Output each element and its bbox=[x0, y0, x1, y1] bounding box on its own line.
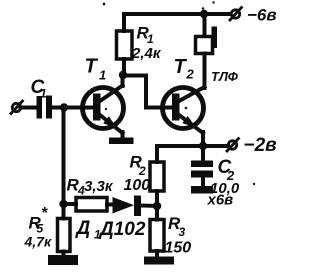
wire top rail bbox=[124, 12, 229, 16]
wire T1 collector up bbox=[121, 75, 125, 86]
scan speck bbox=[202, 7, 205, 10]
label R3 bbox=[165, 214, 192, 257]
svg-text:x6в: x6в bbox=[207, 192, 234, 209]
wire T2 emitter down bbox=[201, 132, 205, 146]
resistor R1 bbox=[117, 14, 133, 75]
wire T2 base bbox=[146, 106, 173, 110]
transistor T1 bbox=[83, 86, 124, 134]
label R2 bbox=[124, 153, 151, 195]
node C junction dot bbox=[200, 10, 208, 18]
wire node B to T2 base bbox=[123, 76, 146, 108]
label T1 bbox=[85, 56, 107, 83]
ground under R3 bbox=[144, 257, 174, 265]
headphone TLF bbox=[196, 14, 218, 88]
resistor R4 bbox=[64, 198, 108, 212]
label T2 bbox=[174, 56, 195, 82]
svg-text:2,4к: 2,4к bbox=[131, 45, 162, 62]
wire R2 top rail to -2v bbox=[157, 146, 228, 162]
svg-text:4,7к: 4,7к bbox=[24, 234, 52, 250]
svg-text:1: 1 bbox=[99, 68, 106, 83]
svg-text:2: 2 bbox=[138, 164, 146, 178]
transistor T2 bbox=[163, 87, 205, 133]
scan speck bbox=[253, 183, 255, 185]
svg-text:T: T bbox=[174, 56, 188, 78]
label R1 bbox=[131, 24, 162, 63]
svg-text:−2в: −2в bbox=[244, 135, 277, 156]
terminal -2v bbox=[227, 139, 239, 152]
svg-text:2: 2 bbox=[186, 67, 195, 82]
node E junction dot bbox=[153, 202, 162, 211]
resistor R5 bbox=[58, 204, 71, 256]
node F junction dot bbox=[59, 200, 67, 208]
input terminal bbox=[11, 101, 23, 114]
scan speck bbox=[212, 1, 214, 3]
wire input to C1 bbox=[21, 106, 37, 110]
svg-text:ТЛФ: ТЛФ bbox=[211, 69, 239, 84]
svg-text:Д102: Д102 bbox=[98, 219, 146, 240]
diode D1 bbox=[107, 196, 157, 217]
resistor R3 bbox=[150, 206, 164, 257]
resistor R2 bbox=[150, 162, 164, 206]
capacitor C2 bbox=[191, 146, 213, 186]
ground under R5 bbox=[48, 255, 78, 265]
svg-text:1: 1 bbox=[40, 87, 47, 101]
svg-text:3: 3 bbox=[179, 225, 186, 239]
wire T1 emitter to ground bbox=[121, 132, 125, 138]
node B junction dot bbox=[119, 71, 127, 79]
scan speck bbox=[185, 107, 188, 110]
label R5 bbox=[24, 205, 52, 250]
wire node A down to node F bbox=[62, 108, 66, 205]
capacitor C1 bbox=[37, 96, 53, 119]
svg-text:*: * bbox=[41, 205, 48, 222]
ground under C2 bbox=[191, 186, 213, 194]
svg-text:Д: Д bbox=[75, 218, 91, 239]
label D1 D102 bbox=[75, 218, 146, 242]
scan speck bbox=[105, 108, 107, 110]
ground under T1 bbox=[109, 138, 134, 145]
scan speck bbox=[103, 3, 106, 6]
terminal -6v bbox=[230, 8, 242, 21]
svg-text:1: 1 bbox=[147, 32, 154, 46]
svg-text:100: 100 bbox=[124, 177, 151, 194]
svg-text:3,3к: 3,3к bbox=[84, 178, 114, 195]
svg-text:T: T bbox=[85, 56, 99, 78]
node D junction dot bbox=[199, 142, 207, 150]
node A junction dot bbox=[60, 103, 68, 111]
svg-text:150: 150 bbox=[165, 240, 192, 257]
label R4 bbox=[67, 176, 114, 198]
wire C1 to T1 base bbox=[52, 106, 94, 110]
label C1 bbox=[31, 77, 48, 101]
svg-text:−6в: −6в bbox=[247, 6, 277, 25]
label C2 bbox=[207, 157, 240, 209]
